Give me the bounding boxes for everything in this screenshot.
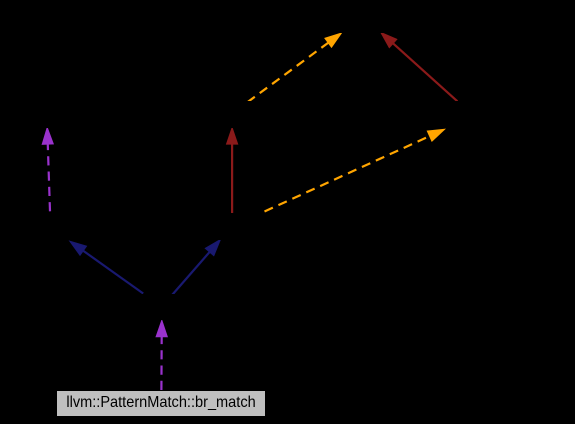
node: top-left (invisible) [8,101,87,128]
edge E8: upper right node -> top node (dark red solid) [381,32,458,101]
edge E5: right mid node -> upper middle node (dark red solid) [227,128,238,215]
edge E7: upper middle node -> top node (orange dashed) [247,33,341,102]
edge E2: left mid node -> top-left node (purple dashed) [42,128,53,212]
edge E6: right mid node -> upper right node (orange dashed) [265,129,445,211]
node: llvm::PatternMatch::br_match (current node, grey) [56,390,266,417]
node: upper right (invisible) [401,101,521,128]
node: top (invisible, black on black) [309,6,455,33]
node: center Cond (invisible) [96,294,227,320]
node: left mid (invisible) [20,213,120,240]
edge E4: center node -> right mid node (blue solid) [172,240,220,295]
edge E1: br_match -> Cond node (purple dashed) [156,320,167,390]
edge E3: center node -> left mid node (blue solid) [70,241,143,293]
node: upper middle (invisible) [186,101,279,128]
node: right mid (invisible) [180,213,280,240]
label: llvm::PatternMatch::br_match [66,394,255,412]
